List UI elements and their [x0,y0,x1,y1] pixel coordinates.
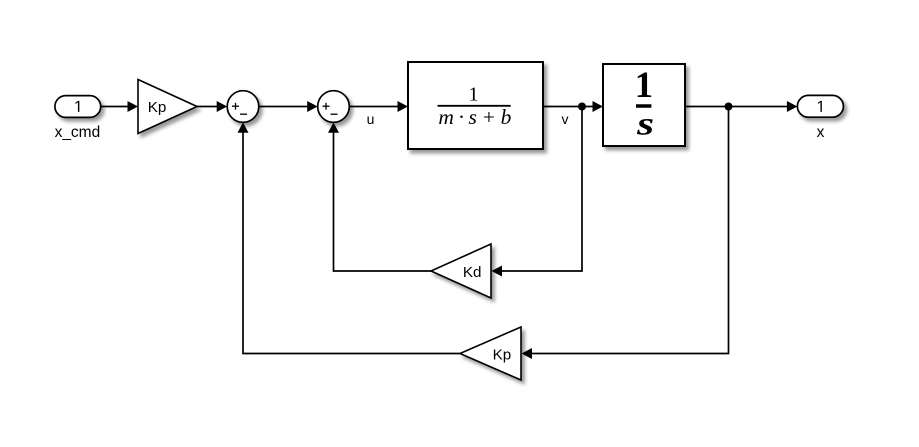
svg-text:u: u [367,111,375,127]
svg-text:1: 1 [468,83,478,105]
svg-text:Kd: Kd [463,264,482,281]
svg-text:m · s + b: m · s + b [438,105,511,129]
svg-text:1: 1 [635,64,653,105]
svg-text:s: s [636,107,654,143]
svg-text:Kp: Kp [493,347,512,364]
svg-text:x: x [817,124,825,141]
svg-text:x_cmd: x_cmd [55,124,101,141]
svg-text:Kp: Kp [148,99,167,116]
svg-text:v: v [562,111,569,127]
